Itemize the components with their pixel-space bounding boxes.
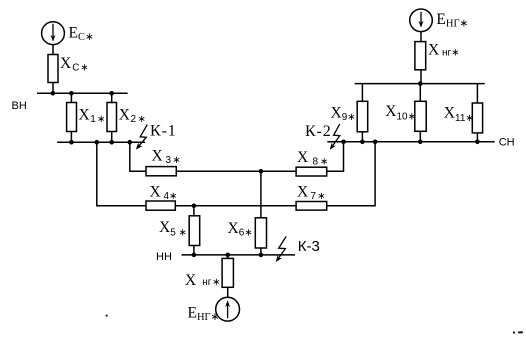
stray dash right (518, 331, 523, 333)
svg-text:Х7∗: Х7∗ (297, 184, 326, 203)
source E_NG* top circle (410, 9, 433, 32)
svg-text:Х2∗: Х2∗ (119, 107, 146, 126)
junction X_11* on SN bus (475, 140, 480, 145)
wire X4 to X7 (175, 205, 296, 207)
wire node B down to X_5* (193, 206, 195, 216)
wire X11 top (476, 84, 478, 103)
bus NN (182, 254, 296, 256)
stray dot right (513, 332, 515, 334)
svg-text:Х 8∗: Х 8∗ (297, 149, 328, 168)
svg-text:Х 4∗: Х 4∗ (150, 184, 178, 203)
wire X7 to SN bus (327, 142, 375, 206)
wire X9 bottom (361, 132, 363, 142)
wire X11 bottom (476, 133, 478, 142)
wire X1 top (70, 93, 72, 102)
junction X_3* branch on bus 2 (128, 140, 133, 145)
resistor X_9* (357, 101, 368, 132)
wire bus2 down to X_4* row (97, 142, 146, 206)
wire NN down to X_ng bottom (227, 255, 229, 259)
wire bus2 down to X_3* row (130, 142, 146, 171)
wire X9 top (361, 84, 363, 102)
resistor X_8* (296, 167, 327, 176)
wire X1 bottom (70, 132, 72, 143)
svg-text:ВН: ВН (12, 100, 27, 112)
svg-text:К-3: К-3 (298, 238, 320, 255)
resistor X_ng* bottom (222, 258, 233, 287)
junction X_1* on bus 2 (69, 140, 74, 145)
svg-text:ХС∗: ХС∗ (60, 55, 89, 73)
junction X_5* on NN bus (192, 253, 197, 258)
resistor X_10* (415, 101, 426, 131)
wire X3 to node (176, 170, 296, 172)
wire X10 top (419, 84, 421, 102)
junction X_8* branch on SN bus (341, 140, 346, 145)
wire X8 to SN bus (327, 142, 344, 172)
junction X_4* branch on bus 2 (95, 140, 100, 145)
svg-text:Х6∗: Х6∗ (228, 220, 253, 239)
svg-text:Х10∗: Х10∗ (385, 103, 416, 123)
resistor X_4* (146, 201, 175, 210)
junction X_2* on bus 2 (109, 140, 114, 145)
svg-text:Х1∗: Х1∗ (79, 107, 106, 126)
svg-text:Х5 ∗: Х5 ∗ (159, 219, 187, 239)
fault K-3 lightning (276, 236, 286, 262)
bus VN (37, 92, 128, 94)
junction X_ng* on NN bus (225, 253, 230, 258)
wire X6 to NN bus (260, 248, 262, 255)
node X4-X7 / X_5* tap (192, 204, 197, 209)
fault K-1 lightning (136, 125, 147, 150)
wire X2 top (111, 93, 113, 102)
svg-text:СН: СН (499, 137, 515, 149)
svg-text:К-1: К-1 (150, 123, 177, 140)
junction X_2* on VN bus (109, 91, 114, 96)
wire X_C* to VN bus (52, 83, 54, 94)
resistor X_11* (472, 103, 482, 133)
svg-text:Х11∗: Х11∗ (444, 105, 474, 125)
svg-text:Х нг∗: Х нг∗ (428, 42, 460, 59)
wire source to X_ng top (420, 32, 422, 42)
junction X_C* on VN bus (51, 91, 56, 96)
wire X_ng to source (227, 287, 229, 297)
junction X_1* on VN bus (69, 91, 74, 96)
bus SN (327, 141, 494, 143)
wire X2 bottom (111, 132, 113, 143)
svg-text:ЕС∗: ЕС∗ (69, 25, 94, 44)
wire X5 to NN bus (193, 246, 195, 255)
top right bus (355, 83, 485, 85)
resistor X_1* (67, 103, 77, 132)
wire X10 bottom (419, 131, 421, 142)
resistor X_3* (146, 167, 176, 176)
junction X_9* on SN bus (360, 140, 365, 145)
resistor X_7* (296, 202, 327, 211)
wire node A down to X_6* (260, 171, 262, 218)
source E_C* circle (42, 22, 65, 45)
svg-text:НН: НН (156, 251, 172, 263)
source E_NG* bottom circle (216, 297, 240, 321)
junction X_ng* on top-right bus (418, 81, 423, 86)
resistor X_ng* top (415, 42, 426, 70)
junction X_10* on SN bus (418, 140, 423, 145)
wire X_ng to top bus (420, 70, 422, 84)
svg-text:ЕНГ∗: ЕНГ∗ (188, 304, 220, 323)
node X3-X8 / X_6* tap (259, 169, 264, 174)
fault K-2 lightning (330, 124, 340, 150)
svg-text:К-2: К-2 (305, 123, 332, 140)
stray dot left (106, 315, 108, 317)
svg-text:Х 3∗: Х 3∗ (152, 148, 181, 167)
svg-text:Хнг∗: Хнг∗ (185, 272, 221, 289)
bus 2 (left lower bus) (57, 141, 145, 143)
resistor X_6* (255, 218, 266, 248)
wire source to X_C* (52, 45, 54, 55)
svg-text:ЕНГ∗: ЕНГ∗ (436, 11, 468, 30)
svg-text:Х9∗: Х9∗ (331, 105, 356, 124)
resistor X_2* (107, 103, 117, 132)
junction X_7* branch on SN bus (373, 140, 378, 145)
resistor X_5* (189, 216, 200, 246)
junction X_6* on NN bus (259, 253, 264, 258)
resistor X_C* (48, 55, 58, 83)
